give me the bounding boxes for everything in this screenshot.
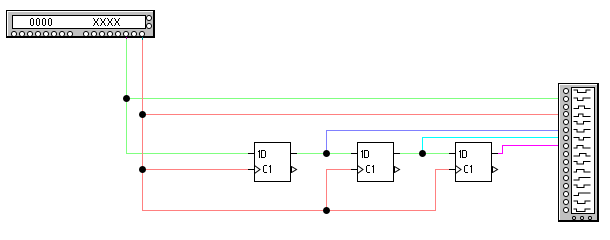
wire: green FF1 Q to FF2 D	[297, 153, 351, 154]
U1 clock input stub	[248, 169, 254, 170]
wire: green vertical from display bit4 pin down to FF1 D row	[126, 39, 127, 154]
wire: green horizontal bus to sequencer pin 2	[126, 98, 558, 99]
U1 output chevron	[291, 166, 298, 173]
wire: red vertical riser to FF3 clock	[435, 170, 436, 210]
sequencer pins	[563, 88, 569, 94]
display bottom pins group A	[11, 31, 17, 37]
U3 label C1	[464, 165, 473, 173]
U1 Q output stub	[291, 153, 297, 154]
display side pins	[146, 15, 152, 21]
junction dot green/blue at (326,153)	[323, 150, 330, 157]
U1 label 1D	[257, 150, 266, 158]
wire: blue horizontal to sequencer pin 6	[326, 130, 558, 131]
wire: magenta vertical riser	[502, 146, 503, 154]
sequencer screen	[571, 87, 595, 214]
hex display value 0000	[30, 18, 52, 26]
wire: red horizontal into FF3 clock	[435, 169, 449, 170]
U3 output chevron	[492, 166, 499, 173]
U3 clock chevron	[455, 165, 463, 174]
wire: green horizontal into FF1 D input	[126, 153, 248, 154]
wire: cyan vertical riser from FF2 Q node	[422, 138, 423, 154]
junction dot green/cyan at (422,153)	[419, 150, 426, 157]
U1 clock chevron	[254, 165, 262, 174]
U2 label 1D	[360, 150, 369, 158]
wire: magenta stub from FF3 Q	[498, 153, 503, 154]
display pin stub teal	[142, 35, 143, 40]
U1 D input stub	[248, 153, 254, 154]
wire: red horizontal into FF1 clock	[142, 169, 248, 170]
U2 label C1	[366, 165, 375, 173]
U2 output chevron	[394, 166, 401, 173]
wire: red bottom horizontal run	[142, 210, 436, 211]
display bottom pins group B	[83, 31, 89, 37]
wire: red horizontal into FF2 clock	[326, 169, 351, 170]
flip-flop U1 box	[254, 142, 291, 182]
U2 Q output stub	[394, 153, 400, 154]
U2 D input stub	[351, 153, 357, 154]
U2 clock input stub	[351, 169, 357, 170]
junction dot red bottom at (326,210)	[323, 207, 330, 214]
wire: red horizontal to sequencer pin 4	[142, 114, 558, 115]
U1 label C1	[263, 165, 272, 173]
hex display screen	[12, 15, 146, 29]
flip-flop U2 box	[357, 142, 394, 182]
junction dot red at (142,114)	[139, 111, 146, 118]
wire: cyan horizontal to sequencer pin 7	[422, 137, 558, 138]
sequencer bottom pins	[572, 216, 576, 220]
display pin stub purple	[126, 35, 127, 39]
wire: red vertical from display bit0 pin down to bottom run	[142, 40, 143, 211]
sequencer waveforms	[571, 87, 595, 214]
U3 clock input stub	[449, 169, 455, 170]
wire: red vertical riser to FF2 clock	[326, 170, 327, 210]
U3 Q output stub	[492, 153, 498, 154]
junction dot red at (142,169)	[139, 166, 146, 173]
U3 label 1D	[458, 150, 467, 158]
wire: magenta horizontal to sequencer pin 8	[502, 145, 558, 146]
sequencer body	[558, 83, 599, 222]
wire: green FF2 Q to FF3 D	[400, 153, 449, 154]
wire: blue vertical riser from FF1 Q node	[326, 131, 327, 154]
hex display value XXXX	[93, 18, 120, 26]
hex display body	[6, 10, 155, 38]
U3 D input stub	[449, 153, 455, 154]
flip-flop U3 box	[455, 142, 492, 182]
junction dot green at (126,98)	[123, 95, 130, 102]
U2 clock chevron	[357, 165, 365, 174]
